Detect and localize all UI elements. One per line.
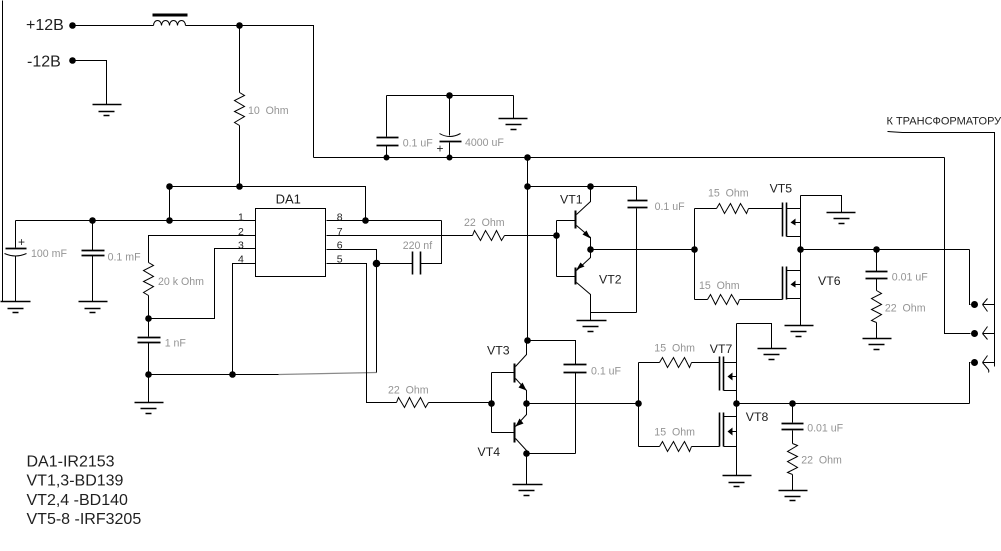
svg-text:5: 5	[337, 254, 343, 266]
resistor 15 Ohm VT5 gate	[717, 204, 749, 214]
node +12B terminal	[69, 22, 76, 29]
wire base link VT3-VT4	[491, 373, 493, 433]
svg-text:22 Ohm: 22 Ohm	[801, 455, 842, 467]
node junction pin4 ground line	[229, 371, 236, 378]
wire 22 Ohm to VT3/VT4 base node	[429, 402, 492, 404]
node junction gates VT5/VT6	[691, 246, 698, 253]
transistor Q5 VT5 middle stub	[796, 222, 801, 224]
wire VT2 collector to ground	[590, 313, 592, 321]
node junction VCC x239	[236, 183, 243, 190]
wire 22 Ohm B to ground	[792, 475, 794, 491]
transistor Q6 VT6 middle stub	[796, 284, 801, 286]
svg-text:3: 3	[238, 240, 244, 252]
transistor Q8 VT8 drain stub	[724, 416, 737, 418]
wire to 15 Ohm VT7	[639, 362, 660, 364]
wire VT5 right vertical	[800, 196, 802, 250]
node junction rail at 0.1uF	[384, 155, 390, 161]
svg-text:VT8: VT8	[746, 410, 769, 424]
wire VT8 right vertical to ground	[736, 404, 738, 476]
wire 15 Ohm to VT7 gate	[692, 362, 720, 364]
resistor 15 Ohm VT8 gate	[660, 442, 692, 452]
wire VT5 drain loop to ground	[801, 196, 842, 213]
capacitor 4000 uF straight plate	[440, 141, 462, 143]
capacitor 0.1 uF VT1 plates	[628, 201, 648, 208]
svg-text:VT5-8 -IRF3205: VT5-8 -IRF3205	[27, 511, 142, 528]
wire VT3 collector bus to cap	[528, 341, 576, 365]
transistor Q8 VT8 substrate arrow	[728, 428, 733, 436]
transistor Q6 VT6 gate bar	[782, 267, 784, 300]
transistor Q4 VT4 base wire	[492, 432, 514, 434]
svg-text:0.01 uF: 0.01 uF	[807, 422, 843, 434]
capacitor 100 mF curved plate	[5, 254, 27, 257]
transistor Q1 VT1 base bar	[575, 211, 577, 229]
svg-text:VT6: VT6	[818, 274, 841, 288]
transistor Q5 VT5 source stub	[787, 236, 801, 238]
transistor Q2 VT2 emitter lead	[577, 250, 591, 271]
border left edge line	[2, 1, 4, 302]
wire VT1 collector bus y186	[528, 186, 637, 188]
node -12B terminal	[69, 57, 76, 64]
svg-text:VT4: VT4	[478, 445, 501, 459]
transistor Q2 VT2 collector lead	[577, 283, 591, 313]
wire VT7 right vertical	[736, 324, 738, 404]
wire 15 Ohm to VT8 gate	[692, 446, 720, 448]
wire VT6 right vertical to ground	[800, 250, 802, 326]
svg-text:7: 7	[337, 226, 343, 238]
capacitor 0.1 uF VT3 plates	[564, 365, 587, 373]
svg-text:0.1 uF: 0.1 uF	[403, 137, 434, 149]
wire half-bridge A output	[801, 249, 970, 251]
svg-text:+12B: +12B	[26, 17, 64, 34]
transistor Q8 VT8 gate bar	[719, 413, 721, 447]
ground -12B	[93, 105, 122, 116]
wire top cap bus y95	[387, 95, 514, 97]
svg-text:220 nf: 220 nf	[403, 240, 433, 252]
svg-text:15 Ohm: 15 Ohm	[699, 280, 740, 292]
resistor 15 Ohm VT7 gate	[660, 358, 692, 368]
capacitor 0.1 uF filter plates	[377, 138, 399, 146]
wire VT2 collector to cap bottom	[591, 312, 637, 314]
transistor Q6 VT6 drain stub	[787, 270, 801, 272]
wire VCC bus y186	[170, 187, 366, 221]
wire half-bridge B output	[737, 403, 970, 405]
wire 22 Ohm A to ground	[876, 323, 878, 339]
wire -12B to ground	[75, 61, 107, 105]
wire gates link vertical	[694, 209, 696, 300]
svg-text:2: 2	[238, 226, 244, 238]
node junction snubber B	[789, 400, 796, 407]
capacitor 0.1 mF plates	[82, 251, 105, 256]
svg-text:8: 8	[337, 212, 343, 224]
transistor Q3 VT3 emitter lead	[516, 379, 527, 404]
node terminal 3	[971, 359, 978, 366]
node junction VT3/VT4 base input	[488, 400, 495, 407]
wire pin 6	[327, 250, 377, 261]
ground VT8 source	[723, 476, 752, 487]
node junction 20k/1nF	[145, 315, 152, 322]
capacitor 1 nF leads	[148, 319, 150, 375]
resistor 22 Ohm B	[788, 444, 798, 475]
wire pin6 node down to gray return	[376, 264, 378, 373]
wire cap bottom to VT4 collector	[527, 453, 576, 455]
wire 15 Ohm to VT5 gate	[749, 208, 783, 210]
capacitor 0.1 uF VT3 bottom lead	[575, 373, 577, 454]
ground snubber B	[779, 491, 808, 501]
transistor Q5 VT5 substrate arrow	[791, 219, 796, 226]
node junction VT3 collector	[524, 337, 531, 344]
svg-text:VT5: VT5	[770, 181, 793, 195]
inductor L1 core bar	[153, 14, 188, 17]
svg-text:DA1: DA1	[276, 192, 301, 207]
svg-text:+: +	[18, 235, 25, 249]
transistor Q7 VT7 channel bar	[723, 357, 725, 391]
wire VT6 gate feed	[695, 299, 708, 301]
arrow terminal 3	[983, 356, 995, 373]
node junction 4000uF top	[446, 92, 453, 99]
resistor 22 Ohm driver VT1/VT2	[473, 231, 505, 241]
node junction rail at 4000uF	[447, 155, 453, 161]
transistor Q3 VT3 base wire	[492, 372, 514, 374]
node junction sources VT7/VT8	[733, 400, 740, 407]
wire output A drop to terminal 1	[970, 250, 971, 305]
svg-text:1: 1	[238, 212, 244, 224]
node junction gates VT7/VT8	[635, 400, 642, 407]
node junction sources VT5/VT6	[797, 246, 804, 253]
capacitor 0.01 uF B plates	[782, 424, 804, 430]
node junction VCC x169	[166, 183, 173, 190]
wire +12B to inductor	[75, 25, 154, 27]
wire gray return to pin6 net	[279, 373, 377, 375]
wire pin 1 rail y220	[16, 220, 256, 222]
transistor Q3 VT3 emitter arrow	[519, 383, 527, 391]
transistor Q7 VT7 substrate arrow	[728, 373, 733, 381]
op-amp U1 DA1 box IR2153	[256, 209, 326, 277]
arrow terminal 2	[983, 327, 995, 340]
resistor 20 k Ohm	[144, 263, 154, 296]
transistor Q8 VT8 channel bar	[723, 413, 725, 447]
node junction snubber A	[873, 246, 880, 253]
capacitor 4000 uF leads	[449, 96, 451, 158]
transistor Q5 VT5 channel bar	[786, 203, 788, 237]
wire pin6 node to 220nf left plate	[377, 263, 413, 265]
svg-text:0.1 uF: 0.1 uF	[655, 201, 686, 213]
ground VT7 drain	[758, 349, 787, 360]
capacitor 100 mF straight plate	[6, 248, 27, 250]
node terminal 2	[971, 330, 978, 337]
wire emitters output to gates node	[591, 249, 695, 251]
resistor 22 Ohm A	[872, 291, 882, 323]
svg-text:100 mF: 100 mF	[31, 248, 67, 260]
svg-text:0.01 uF: 0.01 uF	[892, 271, 928, 283]
svg-text:22 Ohm: 22 Ohm	[464, 217, 505, 229]
wire pin 7	[327, 235, 473, 237]
node terminal 1	[971, 301, 978, 308]
svg-text:1 nF: 1 nF	[165, 338, 187, 350]
resistor 22 Ohm driver VT3/VT4	[397, 398, 429, 408]
ground VT6 source	[785, 326, 814, 337]
node junction +12V top	[236, 22, 243, 29]
wire 15 Ohm to VT6 gate	[740, 299, 783, 301]
svg-text:22 Ohm: 22 Ohm	[388, 384, 429, 396]
wire 22 Ohm to base node	[505, 235, 557, 237]
svg-text:VT1: VT1	[560, 193, 583, 207]
svg-text:К ТРАНСФОРМАТОРУ: К ТРАНСФОРМАТОРУ	[887, 116, 1001, 128]
svg-text:0.1 uF: 0.1 uF	[591, 365, 622, 377]
transistor Q1 VT1 emitter lead	[577, 226, 591, 250]
svg-text:10 Ohm: 10 Ohm	[248, 105, 289, 117]
transistor Q1 VT1 collector lead	[577, 187, 591, 215]
transistor Q3 VT3 base bar	[514, 364, 516, 383]
arrow terminal 1	[983, 299, 995, 312]
transistor Q1 VT1 emitter arrow	[583, 231, 591, 239]
wire output B rise to terminal 3	[970, 363, 971, 404]
resistor 10 Ohm	[235, 93, 245, 126]
wire emitters VT3/VT4 output to gates node	[527, 403, 639, 405]
capacitor 0.1 uF filter leads	[386, 96, 388, 158]
svg-text:4: 4	[238, 254, 244, 266]
wire base link VT1-VT2	[556, 221, 558, 277]
transistor Q8 VT8 source stub	[724, 446, 737, 448]
inductor L1 winding	[154, 21, 186, 26]
ground VT5 drain	[827, 213, 856, 224]
wire VT4 collector to ground	[526, 454, 528, 485]
transistor Q7 VT7 middle stub	[733, 376, 737, 378]
transistor Q7 VT7 gate bar	[719, 357, 721, 391]
svg-text:VT7: VT7	[710, 342, 733, 356]
svg-text:VT3: VT3	[487, 344, 510, 358]
node junction rail at x527	[524, 154, 531, 161]
transistor Q6 VT6 source stub	[787, 298, 801, 300]
wire top bus to ground	[513, 96, 515, 119]
capacitor 0.01 uF A plates	[866, 272, 888, 279]
capacitor 0.01 uF A leads	[876, 250, 878, 291]
wire pin 2	[149, 236, 256, 263]
transistor Q5 VT5 gate bar	[782, 203, 784, 237]
capacitor 220 nf plates	[413, 252, 421, 275]
node junction pin8	[362, 217, 369, 224]
transistor Q6 VT6 substrate arrow	[791, 281, 796, 288]
wire rail drop to terminal 2	[945, 158, 971, 334]
node junction 1nF bottom	[145, 371, 152, 378]
capacitor 4000 uF curved plate	[440, 134, 461, 137]
wire inductor to +12V rail corner	[186, 26, 314, 158]
transistor Q3 VT3 collector lead	[516, 341, 527, 367]
resistor 15 Ohm VT6 gate	[708, 295, 740, 305]
wire pin 4	[233, 264, 256, 375]
node junction emitters VT3/VT4	[523, 400, 530, 407]
node junction rail at 0.1mF	[89, 217, 96, 224]
wire transformer lead line	[888, 132, 995, 367]
wire main mid rail y157	[314, 157, 945, 159]
svg-text:VT2,4 -BD140: VT2,4 -BD140	[27, 492, 128, 509]
wire junction down to resistor R 10 Ohm	[239, 26, 241, 93]
transistor Q2 VT2 base bar	[575, 268, 577, 285]
wire ground line 1nF to pin4	[149, 374, 279, 376]
ground VT3/VT4	[513, 485, 543, 496]
transistor Q6 VT6 channel bar	[786, 267, 788, 300]
wire VT8 gate feed	[639, 446, 660, 448]
ground 1nF	[135, 403, 164, 414]
node junction pin6 net	[373, 260, 381, 268]
transistor Q2 VT2 emitter arrow	[577, 263, 585, 270]
transistor Q7 VT7 source stub	[724, 390, 737, 392]
capacitor 0.1 mF leads	[92, 221, 94, 302]
svg-text:0.1 mF: 0.1 mF	[108, 252, 141, 264]
transistor Q4 VT4 emitter arrow	[516, 419, 524, 427]
wire VT7 drain loop to ground	[737, 324, 772, 349]
capacitor 0.1 uF VT1 leads	[636, 187, 638, 313]
node junction emitters VT1/VT2	[587, 246, 594, 253]
wire pin 8	[327, 220, 442, 222]
transistor Q2 VT2 base wire	[557, 276, 575, 278]
node junction x527 y186	[524, 183, 531, 190]
transistor Q4 VT4 base bar	[514, 423, 516, 443]
ground 0.1 mF	[79, 302, 108, 313]
node junction base input	[553, 232, 560, 239]
wire 1nF junction to ground	[148, 375, 150, 403]
capacitor 1 nF plates	[138, 338, 161, 343]
svg-text:15 Ohm: 15 Ohm	[654, 426, 695, 438]
wire pin 5	[327, 264, 397, 403]
transistor Q4 VT4 emitter lead	[516, 404, 527, 427]
svg-text:22 Ohm: 22 Ohm	[885, 302, 926, 314]
svg-text:4000 uF: 4000 uF	[465, 137, 504, 149]
transistor Q5 VT5 drain stub	[787, 208, 801, 210]
wire 20k bottom lead	[148, 296, 150, 319]
svg-text:DA1-IR2153: DA1-IR2153	[27, 454, 115, 471]
node junction rail at x169	[166, 217, 173, 224]
wire supply drop x527	[527, 158, 529, 341]
svg-text:20 k Ohm: 20 k Ohm	[158, 276, 204, 288]
node junction VT1 collector	[587, 183, 594, 190]
svg-text:6: 6	[337, 240, 343, 252]
wire to 15 Ohm VT5	[695, 208, 717, 210]
wire x169 drop to pin1 rail	[169, 187, 171, 221]
wire pin8 net to 220nf right plate	[421, 221, 442, 264]
svg-text:+: +	[437, 142, 444, 156]
wire gates link vertical VT7/VT8	[638, 363, 640, 447]
svg-text:VT1,3-BD139: VT1,3-BD139	[27, 473, 124, 490]
transistor Q1 VT1 base wire	[557, 220, 575, 222]
ground VT2	[577, 321, 607, 332]
node junction VT4 collector	[523, 450, 530, 457]
capacitor 100 mF leads	[15, 221, 17, 302]
transistor Q8 VT8 middle stub	[733, 431, 737, 433]
ground snubber A	[863, 339, 892, 350]
ground 100 mF	[1, 302, 31, 313]
wire pin 3	[149, 249, 256, 319]
svg-text:VT2: VT2	[599, 273, 622, 287]
ground top middle	[499, 119, 528, 130]
svg-text:-12B: -12B	[27, 54, 61, 71]
wire 10 Ohm to VCC node	[239, 126, 241, 187]
svg-text:15 Ohm: 15 Ohm	[654, 342, 695, 354]
capacitor 0.01 uF B leads	[792, 404, 794, 444]
transistor Q7 VT7 drain stub	[724, 362, 737, 364]
transistor Q4 VT4 collector lead	[516, 439, 527, 454]
svg-text:15 Ohm: 15 Ohm	[708, 188, 749, 200]
